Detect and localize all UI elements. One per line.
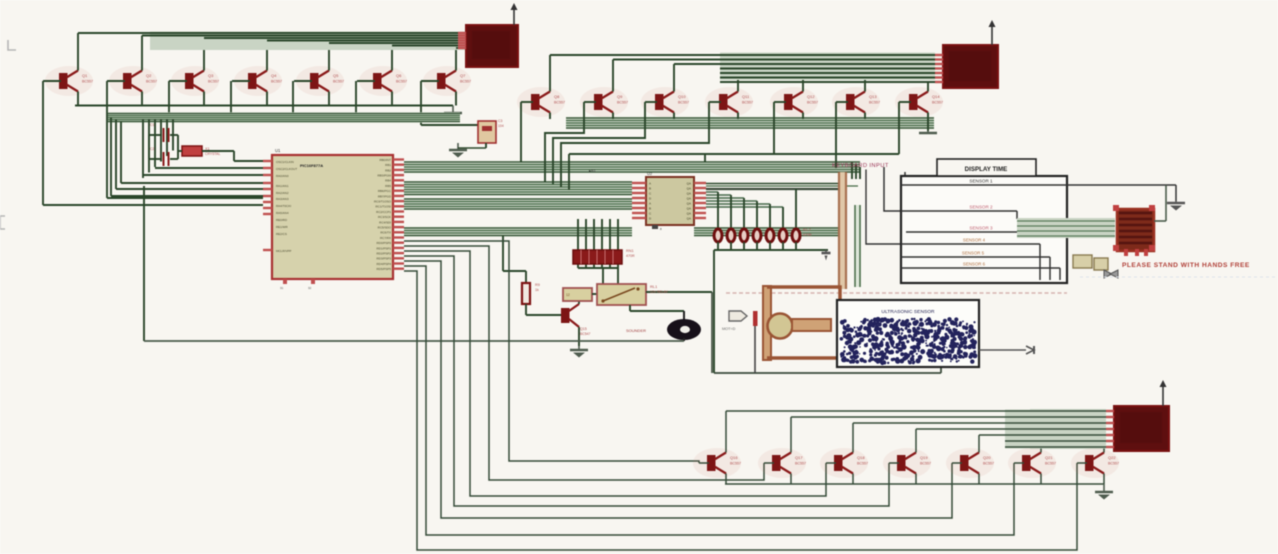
svg-text:QA: QA xyxy=(687,196,691,200)
svg-text:Q19: Q19 xyxy=(920,455,928,460)
wire xyxy=(673,64,675,92)
wire xyxy=(585,219,587,268)
wire xyxy=(149,158,162,160)
wire xyxy=(704,154,706,162)
transistor Q4 xyxy=(234,66,282,96)
svg-text:RB7/PGD: RB7/PGD xyxy=(378,194,392,198)
ground xyxy=(825,250,827,253)
wire xyxy=(714,249,828,251)
wire xyxy=(737,69,739,92)
wire xyxy=(901,243,1040,245)
wire xyxy=(545,102,584,182)
svg-text:BC557: BC557 xyxy=(920,462,931,466)
wire xyxy=(1014,462,1024,464)
wire xyxy=(404,241,699,463)
pins U1 left xyxy=(263,160,272,162)
svg-text:SENSOR 2: SENSOR 2 xyxy=(969,205,993,210)
svg-text:BC557: BC557 xyxy=(678,101,689,105)
wire xyxy=(927,113,929,132)
wire xyxy=(802,73,804,92)
wire xyxy=(578,327,580,346)
wire xyxy=(421,124,478,126)
wire xyxy=(711,292,713,373)
wire xyxy=(889,462,899,464)
wire xyxy=(328,92,330,106)
wire xyxy=(706,183,838,185)
svg-text:A: A xyxy=(649,181,651,185)
wire xyxy=(646,291,712,293)
wire xyxy=(795,242,797,250)
transistor Q15 xyxy=(561,308,570,323)
wire xyxy=(617,219,619,268)
svg-text:Q21: Q21 xyxy=(1045,455,1053,460)
wire xyxy=(526,314,562,316)
svg-text:QA: QA xyxy=(687,191,691,195)
svg-text:B: B xyxy=(649,186,651,190)
wire xyxy=(1059,268,1061,280)
svg-text:C2: C2 xyxy=(150,147,154,151)
svg-text:B: B xyxy=(649,206,651,210)
svg-text:RB5: RB5 xyxy=(385,184,391,188)
wire xyxy=(836,101,848,103)
wire xyxy=(168,81,170,114)
wire xyxy=(769,204,771,229)
wire xyxy=(699,462,709,464)
wire xyxy=(726,289,839,293)
wire xyxy=(116,188,263,190)
transistor Q6 xyxy=(359,66,407,96)
bus wires xyxy=(150,32,466,51)
relay coil xyxy=(563,288,592,301)
wire xyxy=(601,219,603,268)
svg-text:SENSOR 5: SENSOR 5 xyxy=(962,251,985,256)
transistor Q7 xyxy=(423,66,471,96)
resistor R7 xyxy=(792,229,800,242)
wire xyxy=(267,40,458,42)
wire xyxy=(154,119,156,167)
ground xyxy=(1026,346,1034,354)
wire xyxy=(901,210,1017,212)
wire xyxy=(730,195,732,229)
wire xyxy=(550,54,935,56)
svg-text:RC2/CCP1: RC2/CCP1 xyxy=(376,210,391,214)
pins DS3 xyxy=(1106,410,1114,412)
wire xyxy=(725,474,727,485)
wire xyxy=(77,33,79,71)
svg-text:RE2/CS: RE2/CS xyxy=(276,232,287,236)
svg-text:RL1: RL1 xyxy=(650,284,658,289)
bus wires xyxy=(404,227,632,237)
wire xyxy=(404,266,1014,535)
svg-text:SENSOR 4: SENSOR 4 xyxy=(963,238,986,243)
wire xyxy=(725,483,1104,485)
svg-text:RA2/AN2: RA2/AN2 xyxy=(276,191,289,195)
wire xyxy=(835,102,837,168)
svg-text:RE1/WR: RE1/WR xyxy=(276,225,289,229)
svg-text:Q4: Q4 xyxy=(271,73,277,78)
power arrow xyxy=(991,25,993,45)
transistor Q5 xyxy=(296,66,344,96)
wire xyxy=(852,423,854,453)
wire xyxy=(802,113,804,120)
wire xyxy=(1154,220,1166,222)
svg-text:BC557: BC557 xyxy=(983,462,994,466)
wire xyxy=(329,42,458,44)
ground xyxy=(927,131,929,133)
wire xyxy=(456,47,458,49)
svg-text:RB4: RB4 xyxy=(385,179,391,183)
svg-text:RA5/AN4: RA5/AN4 xyxy=(276,211,289,215)
wire xyxy=(602,268,604,284)
wire xyxy=(521,101,533,103)
svg-text:BC557: BC557 xyxy=(460,80,471,84)
wire xyxy=(782,242,784,250)
wire xyxy=(569,153,899,155)
wire xyxy=(43,204,263,206)
wire xyxy=(143,174,263,176)
svg-text:BC557: BC557 xyxy=(82,80,93,84)
bus wires xyxy=(706,191,718,193)
display DS1 xyxy=(466,25,518,67)
svg-text:BC557: BC557 xyxy=(333,80,344,84)
wire xyxy=(170,158,178,160)
svg-text:RE0/RD: RE0/RD xyxy=(276,218,288,222)
transistor Q2 xyxy=(109,66,157,96)
wire xyxy=(77,92,79,106)
svg-text:QA: QA xyxy=(687,181,691,185)
transistor Q8 xyxy=(517,87,565,117)
svg-text:BC557: BC557 xyxy=(869,101,880,105)
pins U2 left xyxy=(632,182,646,184)
bus wires xyxy=(108,112,460,122)
wire xyxy=(203,38,205,71)
wire xyxy=(592,293,597,295)
wire xyxy=(773,102,775,154)
svg-text:Q20: Q20 xyxy=(983,455,991,460)
wire xyxy=(404,251,826,496)
wire xyxy=(730,242,732,250)
wire xyxy=(852,474,854,485)
transistor Q20 xyxy=(946,448,994,478)
wire xyxy=(738,68,935,70)
wire xyxy=(121,182,263,184)
svg-text:RN1: RN1 xyxy=(626,249,634,253)
wire xyxy=(928,81,935,83)
wire xyxy=(43,80,61,82)
svg-text:SENSOR 1: SENSOR 1 xyxy=(969,179,993,184)
wire xyxy=(901,267,1060,269)
transistor Q9 xyxy=(580,87,628,117)
wire xyxy=(1080,276,1278,278)
wire xyxy=(866,170,901,245)
svg-text:Q14: Q14 xyxy=(932,94,940,99)
resistor R5 xyxy=(766,229,774,242)
logic widget xyxy=(1073,255,1092,268)
svg-text:RB0/INT: RB0/INT xyxy=(379,158,391,162)
transistor Q1 xyxy=(45,66,93,96)
svg-text:QA: QA xyxy=(687,186,691,190)
wire xyxy=(561,102,709,187)
wire xyxy=(420,81,422,125)
transistor Q19 xyxy=(883,448,931,478)
svg-text:BC557: BC557 xyxy=(932,101,943,105)
svg-text:SOUNDER: SOUNDER xyxy=(626,328,646,333)
svg-text:OSC2/CLKOUT: OSC2/CLKOUT xyxy=(276,167,297,171)
bus wires xyxy=(694,227,838,237)
svg-text:Q10: Q10 xyxy=(678,94,686,99)
wire xyxy=(266,92,268,106)
wire xyxy=(455,48,457,71)
svg-text:BC557: BC557 xyxy=(146,80,157,84)
wire xyxy=(645,101,657,103)
wire xyxy=(204,37,458,39)
wire xyxy=(421,80,439,82)
wire xyxy=(593,219,595,268)
wire xyxy=(568,154,570,190)
wire xyxy=(578,267,618,269)
ground xyxy=(452,106,454,114)
wire xyxy=(756,242,758,250)
svg-text:▸B1: ▸B1 xyxy=(589,168,597,173)
wire xyxy=(42,81,44,205)
svg-text:BC557: BC557 xyxy=(795,462,806,466)
wire xyxy=(106,81,108,198)
svg-text:U2: U2 xyxy=(647,171,653,176)
wire xyxy=(178,150,182,152)
svg-text:Q6: Q6 xyxy=(396,73,402,78)
wire xyxy=(717,192,719,229)
svg-text:SENSOR 3: SENSOR 3 xyxy=(969,226,993,231)
wire xyxy=(503,270,526,272)
svg-text:Q8: Q8 xyxy=(554,94,560,99)
wire xyxy=(485,143,487,148)
svg-text:C1: C1 xyxy=(150,123,154,127)
wire xyxy=(141,36,143,71)
display DS3 xyxy=(1114,406,1169,451)
svg-text:Q5: Q5 xyxy=(333,73,339,78)
svg-text:Q17: Q17 xyxy=(795,455,803,460)
svg-text:RC4/SDI: RC4/SDI xyxy=(379,220,391,224)
bus wires xyxy=(1030,409,1106,449)
svg-text:MCLR/VPP: MCLR/VPP xyxy=(276,249,291,253)
wire xyxy=(404,261,952,518)
svg-text:Q15: Q15 xyxy=(580,327,587,331)
wire xyxy=(714,372,941,374)
svg-text:RD5/PSP5: RD5/PSP5 xyxy=(376,267,391,271)
wire xyxy=(916,428,1106,430)
wire xyxy=(978,474,980,485)
wire xyxy=(404,256,889,506)
svg-text:BC557: BC557 xyxy=(857,462,868,466)
wire xyxy=(617,268,619,284)
wire xyxy=(864,78,866,92)
wire xyxy=(294,80,312,82)
motor pin xyxy=(753,311,758,326)
wire xyxy=(234,160,263,162)
wire xyxy=(790,417,792,453)
svg-text:Q18: Q18 xyxy=(857,455,865,460)
wire xyxy=(1040,474,1042,485)
wire xyxy=(404,271,1077,550)
wire xyxy=(769,242,771,250)
wire xyxy=(166,119,168,156)
transistor Q18 xyxy=(820,448,868,478)
mcu U1 PIC16F877A xyxy=(272,155,393,279)
transistor Q17 xyxy=(758,448,806,478)
wire xyxy=(520,102,522,162)
svg-text:R1-7: R1-7 xyxy=(803,228,811,232)
svg-text:CRYSTAL: CRYSTAL xyxy=(205,152,220,156)
wire xyxy=(683,338,685,341)
wire xyxy=(756,201,758,229)
svg-text:QA: QA xyxy=(687,211,691,215)
wire xyxy=(927,82,929,92)
wire xyxy=(177,135,179,159)
resistor R9 xyxy=(522,283,530,304)
wire xyxy=(782,207,784,229)
svg-text:BC557: BC557 xyxy=(730,462,741,466)
bus wires xyxy=(1005,410,1106,449)
sounder LS1 xyxy=(667,319,701,340)
svg-text:RC6/TX: RC6/TX xyxy=(380,231,391,235)
wire xyxy=(725,411,727,453)
wire xyxy=(233,151,235,161)
wire xyxy=(110,118,112,197)
wire xyxy=(357,80,375,82)
svg-text:RC0/T1OSO: RC0/T1OSO xyxy=(374,200,392,204)
wire xyxy=(149,134,162,136)
wire xyxy=(578,301,580,304)
power arrow xyxy=(1162,385,1164,406)
wire xyxy=(855,165,857,180)
ground xyxy=(1103,484,1105,492)
wire xyxy=(764,462,774,464)
svg-text:RD3/PSP3: RD3/PSP3 xyxy=(376,257,391,261)
svg-text:BC557: BC557 xyxy=(396,80,407,84)
wire xyxy=(143,186,145,341)
label motor arrow xyxy=(729,311,747,321)
svg-text:Q7: Q7 xyxy=(460,73,466,78)
wire xyxy=(851,162,853,179)
wire xyxy=(706,185,858,187)
wire xyxy=(859,167,861,179)
svg-text:RC5/SDO: RC5/SDO xyxy=(378,226,392,230)
bus wires xyxy=(404,181,632,196)
wire xyxy=(795,189,797,229)
svg-text:Q22: Q22 xyxy=(1108,455,1116,460)
wire xyxy=(1040,441,1042,453)
svg-text:BC557: BC557 xyxy=(554,101,565,105)
wire xyxy=(1027,231,1029,233)
svg-text:RB1: RB1 xyxy=(385,163,391,167)
svg-text:BC557: BC557 xyxy=(617,101,628,105)
wire xyxy=(148,135,150,159)
wire xyxy=(884,167,901,211)
keypad bus xyxy=(839,172,847,289)
wire xyxy=(717,242,719,250)
svg-text:RC1/T1OSI: RC1/T1OSI xyxy=(375,205,391,209)
wire xyxy=(906,231,1028,233)
wire xyxy=(673,113,675,120)
resistor network RN1 xyxy=(573,250,622,264)
wire xyxy=(549,55,551,92)
pins U1 right xyxy=(393,158,404,160)
pins DS1 xyxy=(458,32,466,34)
svg-text:Q9: Q9 xyxy=(617,94,623,99)
wire xyxy=(940,367,942,373)
svg-text:RB3/PGM: RB3/PGM xyxy=(377,174,391,178)
wire xyxy=(726,410,1106,412)
component M2 xyxy=(1117,209,1154,251)
ic U2 74LS47 xyxy=(646,177,694,225)
svg-text:RD1/PSP1: RD1/PSP1 xyxy=(376,246,391,250)
wire xyxy=(629,305,631,311)
svg-text:RA4/T0CKI: RA4/T0CKI xyxy=(276,204,291,208)
wire xyxy=(609,219,611,268)
wire xyxy=(713,250,715,373)
wire xyxy=(737,113,739,120)
wire xyxy=(901,256,1050,258)
wire xyxy=(979,349,1026,351)
wire xyxy=(630,310,684,312)
svg-text:RB2: RB2 xyxy=(385,168,391,172)
wire xyxy=(141,92,143,106)
svg-text:R9: R9 xyxy=(535,283,540,287)
wire xyxy=(1016,211,1018,219)
wire xyxy=(170,134,178,136)
svg-text:Q11: Q11 xyxy=(742,94,750,99)
wire xyxy=(111,195,263,197)
transistor Q16 xyxy=(693,448,741,478)
svg-text:RD2/PSP2: RD2/PSP2 xyxy=(376,252,391,256)
wire xyxy=(172,119,174,151)
wire xyxy=(774,101,786,103)
wire xyxy=(577,219,579,268)
svg-text:BC557: BC557 xyxy=(807,101,818,105)
power arrow xyxy=(513,8,515,25)
pins DS2 xyxy=(935,54,943,56)
display panel xyxy=(901,176,1067,283)
wire xyxy=(553,102,645,184)
svg-text:A: A xyxy=(649,201,651,205)
transistor Q3 xyxy=(171,66,219,96)
svg-text:MOT=D: MOT=D xyxy=(722,327,736,331)
svg-text:BC557: BC557 xyxy=(742,101,753,105)
resistor R6 xyxy=(779,229,787,242)
ground xyxy=(457,143,459,150)
wire xyxy=(743,242,745,250)
pins U1 bottom xyxy=(283,279,287,284)
svg-text:RA1/AN1: RA1/AN1 xyxy=(276,184,289,188)
wire xyxy=(144,340,684,342)
svg-text:DISPLAY TIME: DISPLAY TIME xyxy=(965,166,1008,173)
wire xyxy=(674,63,935,65)
wire xyxy=(899,101,911,103)
wire xyxy=(864,113,866,120)
resistor R1 xyxy=(714,229,722,242)
wire xyxy=(1103,474,1105,485)
svg-text:OSC1/CLKIN: OSC1/CLKIN xyxy=(276,160,294,164)
wire xyxy=(584,101,596,103)
wire xyxy=(978,435,980,453)
transistor Q10 xyxy=(641,87,689,117)
svg-text:RD0/PSP0: RD0/PSP0 xyxy=(376,241,391,245)
wire xyxy=(230,81,232,114)
wire xyxy=(525,271,527,283)
wire xyxy=(1175,185,1177,201)
ground xyxy=(1175,201,1177,203)
svg-text:SENSOR 6: SENSOR 6 xyxy=(963,262,986,267)
